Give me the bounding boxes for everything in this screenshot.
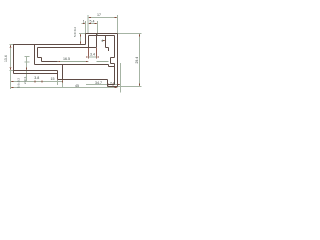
svg-text:3.4: 3.4: [90, 53, 95, 57]
dimension line mid-left vertical: [26, 56, 28, 82]
profile inner top surface: [38, 47, 97, 49]
arrow 17 left: [88, 17, 91, 19]
arrow 3.4 left: [86, 56, 88, 57]
profile inner step wall: [105, 36, 107, 48]
profile staircase inner wall: [37, 48, 39, 58]
arrow 29.4 bottom: [139, 84, 141, 87]
CAD dimensioned drawing of an aluminium extrusion profile cross-section: [0, 0, 150, 113]
tick 34.7 right: [107, 83, 108, 85]
dimension line bottom chain left: [11, 81, 63, 83]
profile foot right wall: [62, 65, 64, 80]
arrow 2.8 right: [118, 84, 121, 86]
profile inner right wall lower: [114, 64, 116, 85]
dimension leader 4: [102, 40, 106, 42]
profile bottom plate: [58, 79, 108, 81]
svg-text:45: 45: [75, 84, 79, 88]
extension tick top-left: [10, 44, 14, 46]
extension line 3.4 right vertical: [96, 48, 98, 59]
dimension line 5.6 step vertical: [80, 34, 82, 45]
profile notch bottom: [111, 63, 115, 65]
dimension line 17 top: [88, 17, 118, 19]
svg-text:13.4: 13.4: [4, 55, 8, 62]
profile notch top: [111, 57, 115, 59]
profile web end step: [108, 65, 110, 67]
arrow 13.4 bottom: [10, 67, 12, 70]
profile staircase step horizontal: [38, 57, 42, 59]
arrow 45 left: [11, 87, 14, 89]
profile bottom-left inner edge: [14, 70, 58, 72]
svg-text:16.5: 16.5: [63, 57, 70, 61]
profile raised top outer edge: [86, 33, 118, 35]
extension line foot left vertical: [57, 80, 59, 85]
dimension line 16.5 on web: [58, 61, 89, 63]
extension tick mid-left lower: [25, 61, 30, 63]
profile tab right wall: [96, 34, 98, 48]
dimension line 45 overall bottom: [11, 87, 118, 89]
extension line step horizontal: [79, 33, 86, 35]
profile raised top inner edge: [89, 35, 115, 37]
profile inner step horizontal: [106, 47, 109, 49]
svg-text:2.8: 2.8: [110, 82, 115, 86]
arrow chain left: [11, 81, 14, 83]
profile bottom-right box inner bottom: [108, 84, 115, 86]
profile web top left segment: [42, 61, 58, 63]
tick 15 right: [62, 80, 63, 82]
svg-text:29.4: 29.4: [135, 57, 139, 64]
extension line tab inner-left vertical: [87, 15, 89, 34]
profile tab left wall: [85, 34, 87, 45]
svg-text:15: 15: [51, 77, 55, 81]
extension line tab right vertical: [97, 21, 99, 36]
arrow 5.6 top: [80, 34, 82, 37]
profile tab inner-left wall: [88, 36, 90, 48]
arrow 16.5 right: [86, 61, 89, 62]
profile inner step stub: [108, 48, 110, 52]
extension line 3.4 left vertical: [88, 48, 90, 59]
dimension leader 1: [82, 23, 86, 25]
svg-text:1: 1: [83, 20, 85, 24]
profile bottom-right box outer bottom: [108, 86, 118, 88]
profile bottom-right box left cap: [107, 80, 109, 87]
profile top-left outer edge: [14, 44, 86, 46]
tick 3.8 right: [41, 80, 42, 82]
arrow 3.4 right: [97, 56, 99, 57]
dimension line 29.4 right vertical: [139, 34, 141, 87]
dimension line web right segment: [97, 61, 109, 63]
profile inner right wall upper: [114, 36, 116, 58]
svg-text:5.6±0.2: 5.6±0.2: [17, 78, 21, 88]
dimension line 34.7 / 2.8 bottom: [86, 84, 121, 86]
arrow 29.4 top: [139, 34, 141, 37]
profile staircase step vertical: [41, 58, 43, 62]
tick 3.8 left: [34, 80, 35, 82]
arrow 5.4 left: [88, 23, 91, 25]
arrow 4: [103, 40, 106, 42]
arrow 45 right: [115, 87, 118, 89]
svg-text:34.7: 34.7: [95, 81, 102, 85]
arrow 13.4 top: [10, 45, 12, 48]
dimension line 5.4 top: [88, 23, 98, 25]
extension line right top horizontal: [118, 33, 142, 35]
svg-text:5.4: 5.4: [90, 20, 95, 24]
arrow 1: [83, 23, 86, 25]
arrow 17 right: [115, 17, 118, 19]
profile foot left wall: [57, 71, 59, 80]
svg-text:3.8: 3.8: [34, 76, 39, 80]
extension line foot right vertical: [62, 80, 64, 88]
profile staircase outer wall: [34, 45, 36, 65]
profile inner shelf: [109, 66, 115, 68]
svg-text:17: 17: [97, 13, 101, 17]
arrow mid-left dim: [26, 68, 28, 71]
arrow 5.4 right: [95, 23, 98, 25]
profile outer right wall: [117, 34, 119, 87]
profile web bottom: [35, 64, 109, 66]
dimension line 13.4 left vertical: [10, 44, 12, 89]
extension tick mid-left upper: [25, 56, 30, 58]
arrow 5.6 bottom: [80, 42, 82, 45]
extension tick left bottom: [10, 70, 14, 72]
profile left outer edge: [13, 44, 15, 74]
extension line right-top vertical: [117, 15, 119, 34]
tick 2.8 left: [112, 83, 113, 85]
svg-text:4: 4: [102, 39, 104, 43]
extension line right bottom horizontal: [118, 86, 142, 88]
dimension line 3.4: [89, 56, 97, 58]
extension line bottom-right vertical: [120, 63, 122, 93]
svg-text:2.2±1: 2.2±1: [23, 76, 27, 84]
profile notch left wall: [110, 58, 112, 64]
arrow 16.5 left: [58, 61, 61, 62]
svg-text:5.6±0.2: 5.6±0.2: [73, 27, 77, 37]
profile bottom-left outer edge: [14, 73, 58, 75]
extension line tab outer-left vertical: [85, 21, 87, 34]
